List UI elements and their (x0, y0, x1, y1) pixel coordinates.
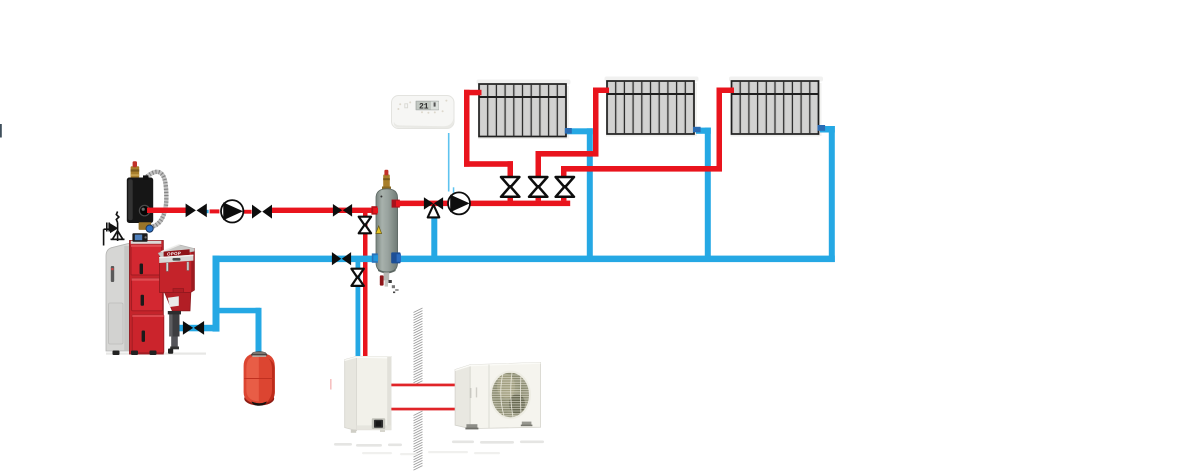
svg-text:21: 21 (419, 103, 429, 112)
